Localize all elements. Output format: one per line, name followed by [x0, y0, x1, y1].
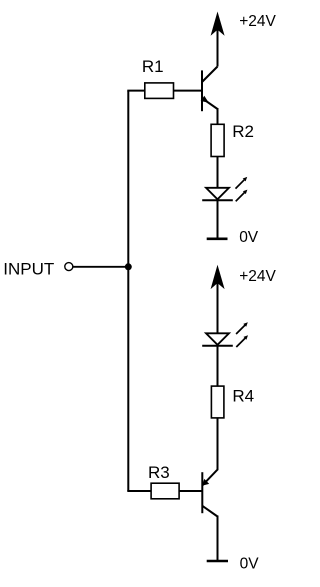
wire Q2 to ground: [217, 516, 219, 562]
wire R1 to Q1 base: [174, 90, 203, 92]
wire D2 to R4: [217, 346, 219, 387]
wire R3 to Q2 base: [179, 490, 202, 492]
LED D2 light arrows: [236, 322, 248, 347]
wire D1 to ground: [217, 200, 219, 239]
junction dot: [125, 263, 132, 270]
LED D2: [202, 333, 233, 346]
wire INPUT to bus: [73, 266, 128, 268]
wire bus to R3: [127, 490, 152, 492]
LED D1: [202, 188, 233, 201]
wire bus vertical (R1 branch to R3 branch): [127, 91, 129, 491]
wire R4 to Q2: [217, 418, 219, 470]
svg-text:+24V: +24V: [239, 268, 276, 285]
ground 0V (bottom): [207, 560, 228, 563]
svg-text:+24V: +24V: [239, 13, 276, 30]
resistor R4: [211, 386, 224, 418]
transistor Q1: [201, 67, 218, 112]
svg-text:R2: R2: [232, 122, 254, 141]
svg-text:R3: R3: [148, 463, 170, 482]
wire bus to R1: [127, 90, 145, 92]
svg-text:0V: 0V: [239, 229, 259, 246]
+24V supply arrow (bottom): [211, 265, 225, 334]
wire Q1 emitter to R2: [217, 108, 219, 125]
INPUT terminal circle: [65, 263, 73, 271]
svg-text:R4: R4: [232, 386, 254, 405]
svg-text:R1: R1: [142, 57, 164, 76]
wire R2 to LED D1: [217, 157, 219, 189]
transistor Q2: [202, 470, 218, 517]
svg-text:INPUT: INPUT: [3, 259, 54, 278]
resistor R3: [151, 483, 179, 499]
svg-text:0V: 0V: [240, 555, 260, 572]
+24V supply arrow (top): [211, 12, 225, 67]
ground 0V (top): [207, 238, 228, 241]
LED D1 light arrows: [236, 177, 248, 201]
resistor R2: [211, 124, 224, 156]
resistor R1: [145, 83, 174, 99]
